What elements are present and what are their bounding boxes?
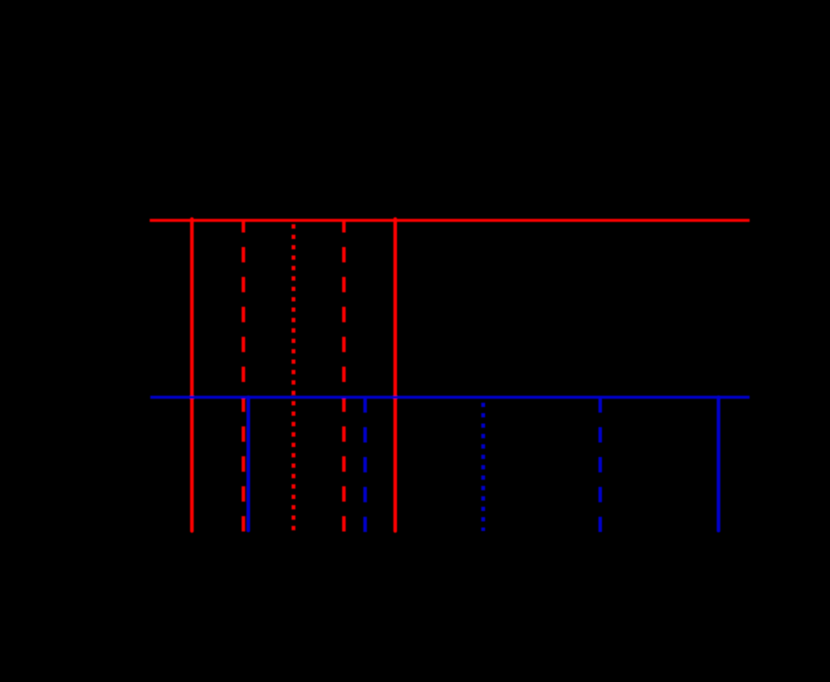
red stem 4 dashed bbox=[342, 220, 346, 532]
blue stem 5 solid bbox=[717, 397, 721, 530]
blue baseline (lower horizontal axis) bbox=[150, 396, 749, 399]
red stem 3 dotted bbox=[292, 220, 296, 531]
red baseline (upper horizontal axis) bbox=[150, 219, 750, 222]
blue stem 3 dotted bbox=[481, 397, 485, 531]
blue stem 2 dashed bbox=[363, 397, 367, 532]
blue stem 1 solid bbox=[247, 397, 251, 530]
blue stem 4 dashed bbox=[598, 397, 602, 532]
red stem 2 dashed bbox=[242, 220, 246, 532]
red stem 1 solid bbox=[190, 219, 194, 531]
red stem 5 solid bbox=[393, 219, 397, 531]
